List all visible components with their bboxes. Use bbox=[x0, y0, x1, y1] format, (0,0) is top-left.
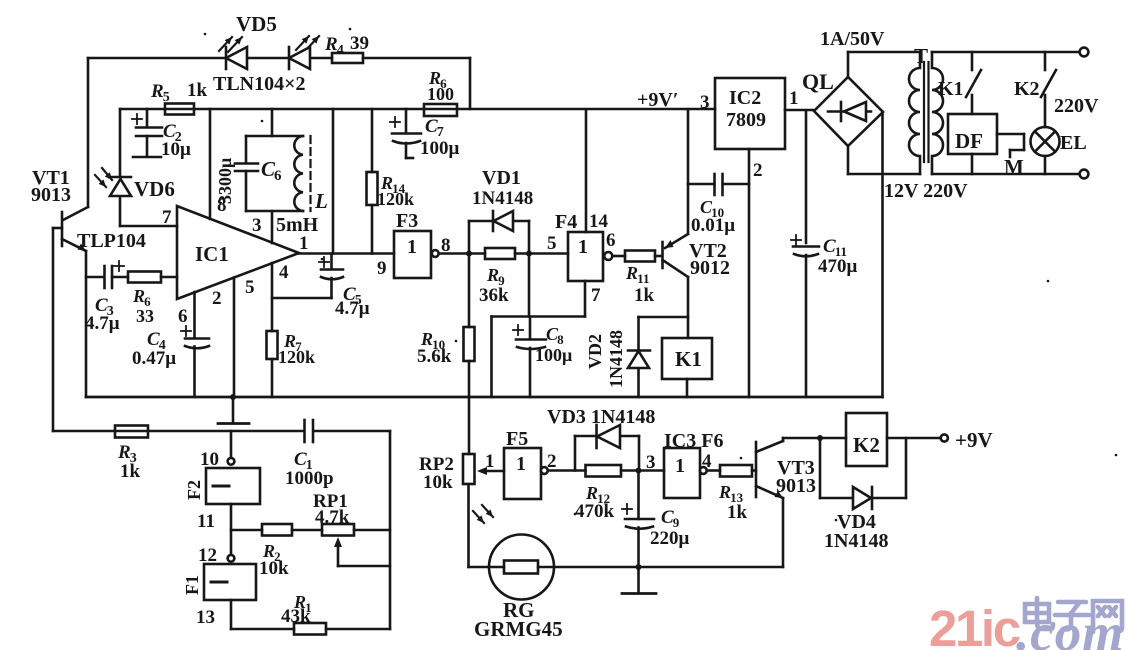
svg-text:F5: F5 bbox=[506, 428, 528, 450]
svg-text:9012: 9012 bbox=[690, 257, 730, 279]
svg-text:VD5: VD5 bbox=[236, 12, 277, 36]
svg-text:100: 100 bbox=[427, 84, 454, 104]
svg-text:R: R bbox=[132, 286, 145, 306]
svg-text:1: 1 bbox=[299, 233, 309, 254]
svg-text:1N4148: 1N4148 bbox=[472, 188, 533, 209]
svg-text:2: 2 bbox=[212, 288, 222, 309]
svg-text:2: 2 bbox=[547, 451, 557, 472]
svg-text:K2: K2 bbox=[1014, 78, 1040, 100]
svg-text:4: 4 bbox=[702, 451, 712, 472]
svg-text:1: 1 bbox=[516, 453, 526, 475]
svg-text:39: 39 bbox=[350, 33, 369, 54]
svg-text:4.7μ: 4.7μ bbox=[85, 313, 120, 334]
svg-text:GRMG45: GRMG45 bbox=[474, 617, 563, 641]
svg-text:11: 11 bbox=[637, 271, 649, 286]
svg-text:1: 1 bbox=[485, 451, 495, 472]
svg-text:4: 4 bbox=[337, 43, 344, 58]
svg-text:K1: K1 bbox=[938, 78, 964, 100]
svg-text:2: 2 bbox=[753, 160, 763, 181]
svg-text:6: 6 bbox=[274, 168, 282, 184]
svg-text:8: 8 bbox=[441, 235, 451, 256]
svg-text:1: 1 bbox=[407, 236, 417, 258]
svg-text:470μ: 470μ bbox=[818, 256, 858, 277]
svg-text:6: 6 bbox=[606, 230, 616, 251]
svg-text:33: 33 bbox=[136, 306, 154, 326]
svg-text:3: 3 bbox=[646, 452, 656, 473]
svg-text:5: 5 bbox=[547, 233, 557, 254]
svg-text:1k: 1k bbox=[634, 285, 655, 306]
svg-text:3: 3 bbox=[252, 215, 262, 236]
svg-text:TLN104×2: TLN104×2 bbox=[213, 73, 306, 95]
svg-text:R: R bbox=[117, 442, 131, 463]
svg-text:F3: F3 bbox=[396, 210, 418, 232]
svg-text:100μ: 100μ bbox=[535, 345, 572, 365]
svg-text:9: 9 bbox=[377, 258, 387, 279]
svg-text:+9V: +9V bbox=[955, 428, 993, 452]
svg-text:0.01μ: 0.01μ bbox=[691, 215, 735, 236]
svg-text:1k: 1k bbox=[120, 461, 141, 482]
svg-text:7: 7 bbox=[162, 207, 172, 228]
svg-text:L: L bbox=[314, 189, 328, 213]
svg-text:F2: F2 bbox=[184, 480, 204, 500]
svg-text:QL: QL bbox=[802, 69, 834, 94]
svg-text:3300μ: 3300μ bbox=[215, 158, 235, 204]
svg-text:5: 5 bbox=[245, 277, 255, 298]
svg-text:120k: 120k bbox=[278, 347, 315, 367]
svg-text:EL: EL bbox=[1060, 132, 1087, 154]
svg-text:10k: 10k bbox=[259, 558, 289, 579]
svg-text:IC1: IC1 bbox=[195, 242, 229, 266]
svg-text:VD2: VD2 bbox=[585, 334, 605, 369]
svg-text:12: 12 bbox=[198, 545, 217, 566]
svg-text:K2: K2 bbox=[853, 433, 880, 457]
svg-text:VD6: VD6 bbox=[134, 177, 175, 201]
svg-text:5.6k: 5.6k bbox=[417, 346, 452, 367]
svg-text:9013: 9013 bbox=[776, 475, 816, 497]
svg-text:9013: 9013 bbox=[31, 184, 71, 206]
svg-text:12V 220V: 12V 220V bbox=[884, 180, 968, 202]
svg-text:DF: DF bbox=[955, 129, 983, 153]
svg-text:4: 4 bbox=[279, 262, 289, 283]
svg-text:21ic: 21ic bbox=[929, 600, 1020, 650]
svg-text:4.7k: 4.7k bbox=[315, 507, 350, 528]
svg-text:120k: 120k bbox=[377, 189, 414, 209]
svg-text:1: 1 bbox=[675, 455, 685, 477]
svg-text:R: R bbox=[150, 81, 164, 102]
svg-text:VD3 1N4148: VD3 1N4148 bbox=[547, 406, 655, 428]
svg-text:14: 14 bbox=[589, 211, 609, 232]
svg-text:F1: F1 bbox=[182, 575, 202, 595]
svg-text:1A/50V: 1A/50V bbox=[820, 28, 885, 50]
svg-text:R: R bbox=[718, 482, 731, 502]
svg-text:1k: 1k bbox=[727, 502, 748, 523]
svg-text:M: M bbox=[1004, 155, 1024, 179]
svg-text:0.47μ: 0.47μ bbox=[132, 348, 176, 369]
svg-text:VD1: VD1 bbox=[482, 167, 521, 189]
svg-text:K1: K1 bbox=[675, 347, 702, 371]
svg-text:6: 6 bbox=[178, 306, 188, 327]
svg-text:1N4148: 1N4148 bbox=[606, 330, 626, 388]
svg-text:10k: 10k bbox=[423, 472, 453, 493]
svg-text:R: R bbox=[625, 263, 638, 283]
svg-text:36k: 36k bbox=[479, 285, 509, 306]
svg-text:F4: F4 bbox=[555, 211, 577, 233]
svg-text:R: R bbox=[585, 483, 598, 503]
svg-text:+9V′: +9V′ bbox=[637, 89, 678, 111]
svg-text:43k: 43k bbox=[281, 606, 311, 627]
svg-text:5mH: 5mH bbox=[276, 214, 319, 236]
svg-text:7: 7 bbox=[591, 285, 601, 306]
svg-text:10: 10 bbox=[200, 449, 219, 470]
svg-text:5: 5 bbox=[163, 90, 170, 105]
svg-text:1: 1 bbox=[578, 236, 588, 258]
svg-text:1000p: 1000p bbox=[285, 468, 334, 489]
svg-text:R: R bbox=[486, 265, 499, 285]
svg-text:10μ: 10μ bbox=[161, 139, 191, 160]
svg-text:7809: 7809 bbox=[726, 109, 766, 131]
svg-text:1k: 1k bbox=[187, 80, 208, 101]
svg-text:3: 3 bbox=[700, 92, 710, 113]
svg-text:TLP104: TLP104 bbox=[77, 230, 146, 252]
svg-text:1: 1 bbox=[789, 88, 799, 109]
svg-text:220V: 220V bbox=[1054, 95, 1099, 117]
svg-text:T: T bbox=[914, 44, 928, 68]
svg-text:1N4148: 1N4148 bbox=[824, 530, 888, 552]
svg-text:470k: 470k bbox=[575, 501, 615, 522]
svg-text:IC2: IC2 bbox=[729, 87, 761, 109]
svg-text:100μ: 100μ bbox=[420, 138, 460, 159]
svg-text:R: R bbox=[324, 34, 338, 55]
svg-text:11: 11 bbox=[197, 511, 215, 532]
svg-text:13: 13 bbox=[196, 607, 215, 628]
svg-text:4.7μ: 4.7μ bbox=[335, 298, 370, 319]
svg-text:IC3 F6: IC3 F6 bbox=[664, 430, 723, 452]
svg-text:220μ: 220μ bbox=[650, 528, 690, 549]
